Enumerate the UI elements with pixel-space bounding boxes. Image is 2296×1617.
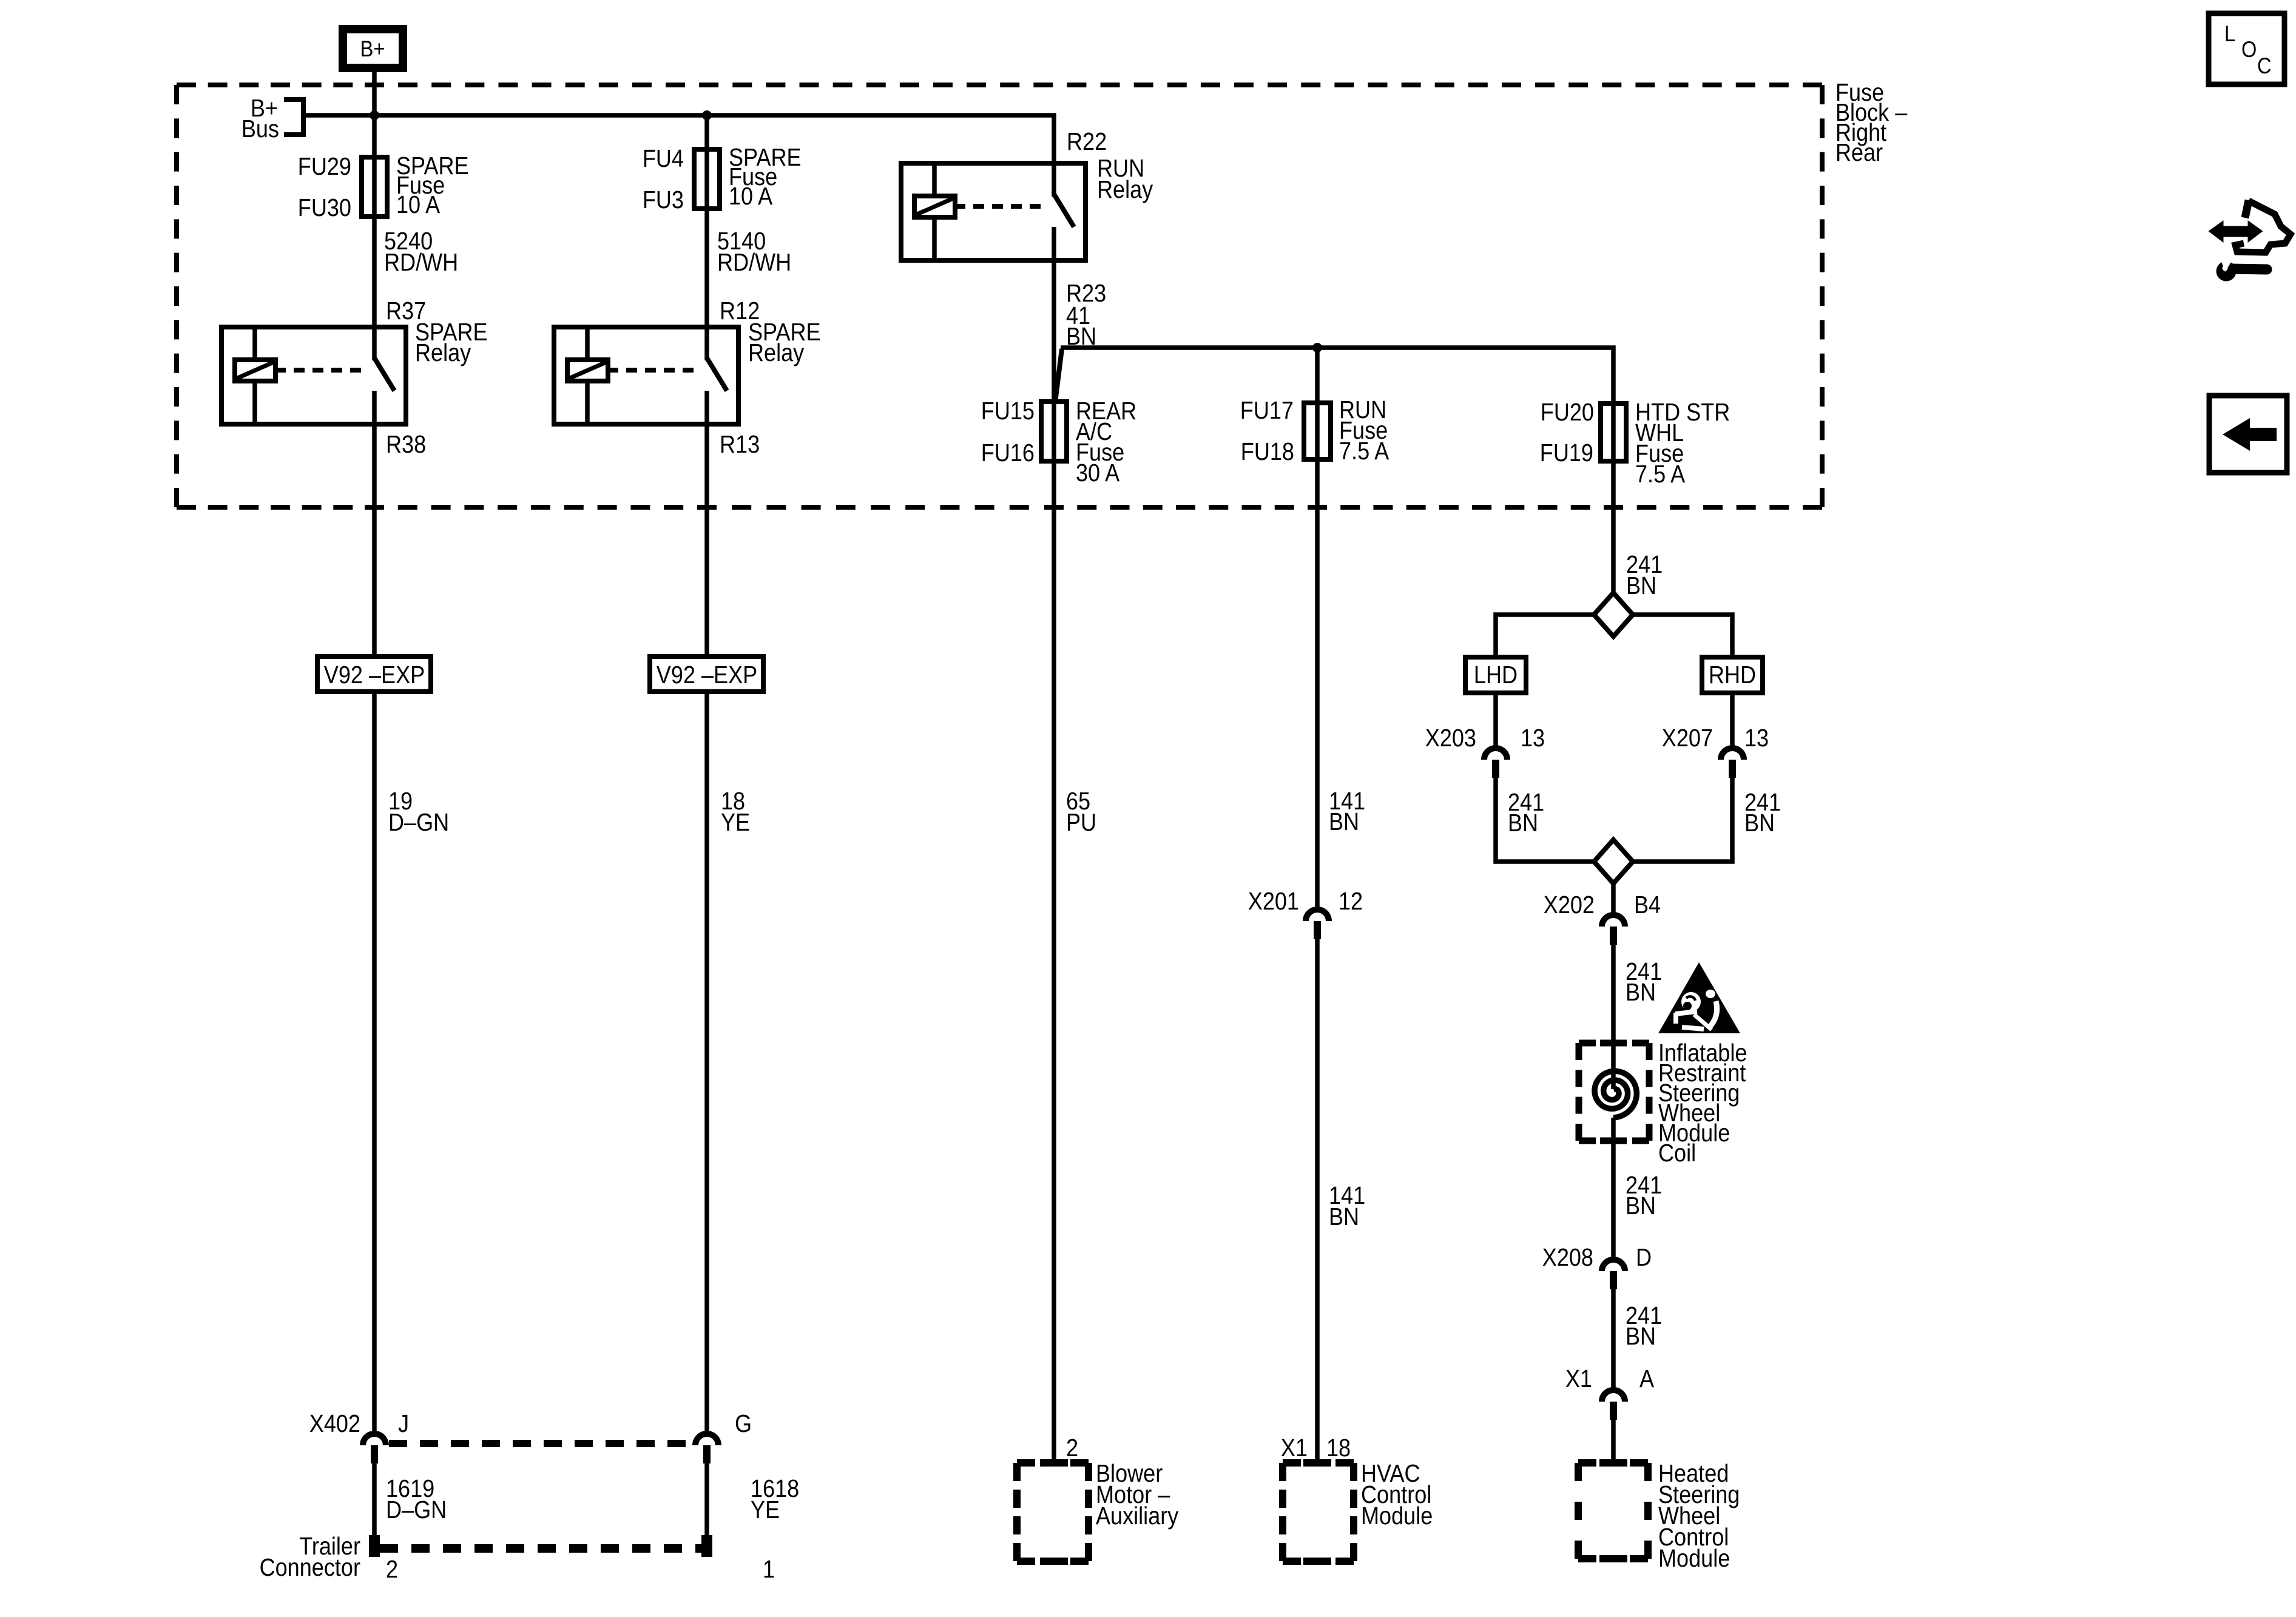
svg-text:FU15: FU15: [981, 397, 1035, 425]
svg-text:O: O: [2241, 37, 2257, 62]
svg-text:Relay: Relay: [415, 339, 471, 367]
svg-text:12: 12: [1339, 888, 1363, 916]
svg-text:V92 –EXP: V92 –EXP: [657, 661, 757, 689]
svg-text:7.5 A: 7.5 A: [1635, 461, 1685, 488]
svg-text:7.5 A: 7.5 A: [1339, 437, 1389, 465]
svg-text:X203: X203: [1425, 724, 1476, 752]
svg-text:10 A: 10 A: [396, 191, 440, 219]
svg-text:2: 2: [386, 1556, 398, 1584]
svg-text:RHD: RHD: [1709, 661, 1756, 689]
svg-text:2: 2: [1066, 1434, 1078, 1462]
svg-text:X202: X202: [1544, 891, 1595, 919]
svg-text:Rear: Rear: [1835, 139, 1883, 167]
svg-text:Module: Module: [1361, 1502, 1433, 1530]
svg-text:BN: BN: [1508, 809, 1538, 837]
svg-text:Coil: Coil: [1658, 1139, 1696, 1167]
svg-text:D: D: [1636, 1244, 1652, 1272]
svg-text:18: 18: [1326, 1434, 1351, 1462]
svg-text:YE: YE: [721, 809, 750, 837]
svg-text:13: 13: [1521, 724, 1545, 752]
svg-text:X208: X208: [1542, 1244, 1593, 1272]
svg-text:BN: BN: [1626, 1192, 1656, 1220]
svg-text:LHD: LHD: [1474, 661, 1518, 689]
svg-text:C: C: [2257, 53, 2272, 78]
svg-text:BN: BN: [1626, 979, 1656, 1007]
svg-text:1: 1: [763, 1556, 775, 1584]
svg-text:13: 13: [1744, 724, 1769, 752]
svg-text:A: A: [1639, 1365, 1654, 1393]
svg-text:R13: R13: [720, 431, 760, 459]
svg-text:G: G: [735, 1410, 752, 1438]
svg-text:Module: Module: [1658, 1545, 1730, 1573]
svg-text:D–GN: D–GN: [388, 809, 449, 837]
svg-text:Connector: Connector: [260, 1554, 361, 1582]
svg-text:FU20: FU20: [1541, 399, 1594, 427]
svg-text:FU30: FU30: [298, 194, 351, 222]
svg-text:BN: BN: [1329, 1203, 1359, 1231]
svg-text:30 A: 30 A: [1076, 459, 1119, 487]
svg-text:FU16: FU16: [981, 439, 1035, 467]
svg-text:FU29: FU29: [298, 153, 351, 181]
svg-text:RD/WH: RD/WH: [717, 249, 791, 277]
svg-text:L: L: [2224, 21, 2235, 46]
svg-text:YE: YE: [751, 1496, 780, 1524]
svg-text:R22: R22: [1067, 128, 1107, 156]
svg-text:RD/WH: RD/WH: [384, 249, 458, 277]
svg-text:X1: X1: [1281, 1434, 1308, 1462]
svg-text:Relay: Relay: [748, 339, 805, 367]
svg-text:10 A: 10 A: [729, 183, 772, 211]
svg-text:BN: BN: [1626, 572, 1656, 600]
svg-text:X402: X402: [309, 1410, 360, 1438]
svg-text:X1: X1: [1565, 1365, 1592, 1393]
svg-text:X207: X207: [1662, 724, 1713, 752]
svg-text:R38: R38: [386, 431, 426, 459]
svg-text:FU17: FU17: [1240, 397, 1294, 425]
svg-text:Auxiliary: Auxiliary: [1096, 1502, 1179, 1530]
svg-text:D–GN: D–GN: [386, 1496, 447, 1524]
svg-text:PU: PU: [1066, 809, 1096, 837]
svg-text:FU19: FU19: [1540, 439, 1593, 467]
svg-text:B4: B4: [1634, 891, 1661, 919]
svg-text:BN: BN: [1744, 809, 1775, 837]
svg-text:B+: B+: [360, 36, 385, 61]
svg-text:FU4: FU4: [643, 145, 684, 173]
svg-text:BN: BN: [1626, 1323, 1656, 1351]
svg-text:Bus: Bus: [241, 115, 279, 143]
svg-text:X201: X201: [1248, 888, 1299, 916]
svg-text:FU3: FU3: [643, 186, 684, 214]
svg-text:BN: BN: [1329, 808, 1359, 836]
svg-text:Relay: Relay: [1097, 176, 1153, 204]
svg-text:FU18: FU18: [1241, 438, 1294, 466]
svg-text:J: J: [398, 1410, 409, 1438]
svg-text:V92 –EXP: V92 –EXP: [324, 661, 425, 689]
